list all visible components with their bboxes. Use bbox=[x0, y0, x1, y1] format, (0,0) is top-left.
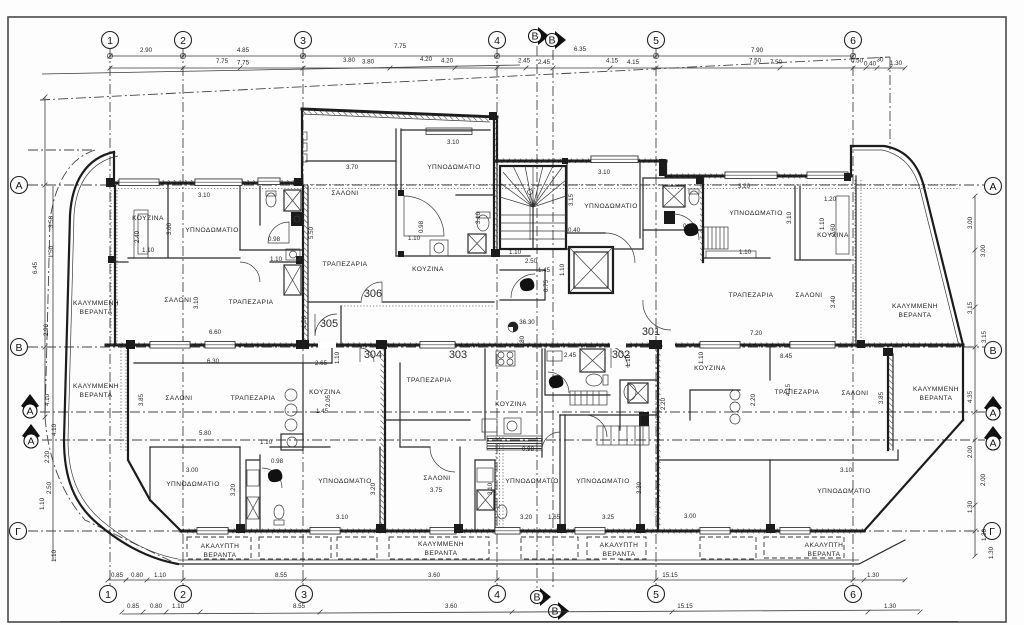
svg-text:3.10: 3.10 bbox=[336, 514, 349, 521]
staircase box bbox=[500, 166, 566, 249]
svg-text:ΚΟΥΖΙΝΑ: ΚΟΥΖΙΝΑ bbox=[132, 215, 164, 222]
apt 306 entry door bbox=[361, 282, 382, 303]
svg-text:7.75: 7.75 bbox=[237, 60, 250, 67]
dashed veranda boxes bottom bbox=[187, 537, 251, 559]
kitchen 302 counter bbox=[690, 390, 740, 420]
svg-text:2: 2 bbox=[180, 35, 186, 47]
svg-text:Γ: Γ bbox=[989, 526, 995, 538]
svg-text:ΒΕΡΑΝΤΑ: ΒΕΡΑΝΤΑ bbox=[603, 551, 636, 558]
apt 301 bedroom walls bbox=[566, 163, 568, 233]
svg-text:ΚΑΛΥΜΜΕΝΗ: ΚΑΛΥΜΜΕΝΗ bbox=[73, 300, 119, 307]
stair treads fan bbox=[500, 166, 566, 207]
small shaft west wing bbox=[284, 265, 301, 295]
terrace inner thin line bbox=[620, 559, 859, 561]
svg-text:0.50: 0.50 bbox=[851, 58, 864, 65]
svg-text:4.20: 4.20 bbox=[420, 56, 433, 63]
svg-text:1.10: 1.10 bbox=[559, 263, 566, 276]
bedroom inner north wall in bay bbox=[401, 129, 490, 131]
svg-text:3.20: 3.20 bbox=[370, 482, 377, 495]
windows on B spine wall bbox=[150, 342, 190, 349]
apt 305 entry door bbox=[308, 302, 494, 343]
svg-text:ΤΡΑΠΕΖΑΡΙΑ: ΤΡΑΠΕΖΑΡΙΑ bbox=[728, 292, 773, 299]
svg-text:3.00: 3.00 bbox=[967, 216, 974, 229]
svg-text:7.75: 7.75 bbox=[216, 58, 229, 65]
svg-text:ΥΠΝΟΔΩΜΑΤΙΟ: ΥΠΝΟΔΩΜΑΤΙΟ bbox=[729, 210, 783, 217]
kitchen 303 bbox=[484, 349, 486, 440]
elevator shaft bbox=[569, 247, 613, 293]
west veranda curved wall bbox=[64, 152, 178, 564]
center bay east wall bbox=[496, 117, 498, 162]
svg-text:2.00: 2.00 bbox=[967, 445, 974, 458]
svg-text:ΚΑΛΥΜΜΕΝΗ: ΚΑΛΥΜΜΕΝΗ bbox=[73, 383, 119, 390]
svg-text:1.10: 1.10 bbox=[819, 217, 826, 230]
top dimension line row 1 bbox=[110, 55, 853, 57]
svg-text:30: 30 bbox=[877, 57, 884, 64]
redraw windows over hatch: north walls bbox=[195, 179, 242, 186]
svg-text:3.10: 3.10 bbox=[198, 192, 211, 199]
west salon wall below A bbox=[114, 186, 116, 345]
svg-text:0.75: 0.75 bbox=[543, 279, 550, 292]
svg-text:3.10: 3.10 bbox=[786, 211, 793, 224]
svg-text:5: 5 bbox=[653, 35, 659, 47]
east wing west wall bbox=[702, 176, 704, 262]
svg-text:1.45: 1.45 bbox=[538, 267, 551, 274]
vertical column grid lines bbox=[109, 48, 111, 588]
door arcs bottom bedrooms bbox=[430, 447, 455, 472]
corridor walls center bbox=[497, 255, 530, 257]
svg-text:ΥΠΝΟΔΩΜΑΤΙΟ: ΥΠΝΟΔΩΜΑΤΙΟ bbox=[576, 478, 630, 485]
kitchen counter west wing bbox=[134, 210, 148, 258]
svg-text:3.60: 3.60 bbox=[445, 603, 458, 610]
svg-text:7.50: 7.50 bbox=[749, 58, 762, 65]
black wall piers bbox=[106, 178, 115, 187]
door arc bedroom 301 bbox=[605, 233, 635, 263]
svg-text:ΤΡΑΠΕΖΑΡΙΑ: ΤΡΑΠΕΖΑΡΙΑ bbox=[230, 395, 275, 402]
svg-text:4.15: 4.15 bbox=[785, 383, 792, 396]
svg-text:ΑΚΑΛΥΠΤΗ: ΑΚΑΛΥΠΤΗ bbox=[600, 542, 639, 549]
svg-text:3.00: 3.00 bbox=[684, 513, 697, 520]
svg-text:A: A bbox=[989, 408, 996, 420]
svg-text:0.85: 0.85 bbox=[127, 603, 140, 610]
svg-text:3.30: 3.30 bbox=[636, 481, 643, 494]
svg-text:ΚΟΥΖΙΝΑ: ΚΟΥΖΙΝΑ bbox=[694, 365, 726, 372]
bath 303 center bbox=[545, 349, 610, 395]
stair core north wall bbox=[495, 160, 666, 163]
svg-text:A: A bbox=[27, 436, 34, 448]
outer terrace edge bottom bbox=[178, 540, 905, 564]
svg-text:ΥΠΝΟΔΩΜΑΤΙΟ: ΥΠΝΟΔΩΜΑΤΙΟ bbox=[427, 164, 481, 171]
svg-text:7.75: 7.75 bbox=[394, 43, 407, 50]
svg-text:3: 3 bbox=[301, 589, 307, 601]
svg-text:4.10: 4.10 bbox=[51, 423, 58, 436]
svg-text:3.85: 3.85 bbox=[138, 393, 145, 406]
wall poche: east wing west wall bbox=[700, 176, 704, 262]
svg-text:3.50: 3.50 bbox=[48, 215, 55, 228]
bottom sheet inner line bbox=[60, 621, 958, 623]
svg-text:ΚΟΥΖΙΝΑ: ΚΟΥΖΙΝΑ bbox=[309, 389, 341, 396]
bay bath door arc bbox=[404, 196, 444, 236]
wall poche: divider 306 bbox=[303, 186, 309, 345]
svg-text:ΚΑΛΥΜΜΕΝΗ: ΚΑΛΥΜΜΕΝΗ bbox=[892, 303, 938, 310]
svg-text:4.35: 4.35 bbox=[967, 390, 974, 403]
east diagonal boundary wall upper bbox=[924, 187, 963, 345]
east veranda railing dotted bbox=[854, 180, 856, 345]
svg-text:7.50: 7.50 bbox=[770, 59, 783, 66]
svg-text:A: A bbox=[989, 181, 996, 193]
divider 303/302 bbox=[657, 347, 659, 531]
wall poche: grid B spine bbox=[106, 343, 963, 348]
east wing north wall bbox=[666, 175, 851, 178]
svg-text:1.65: 1.65 bbox=[548, 514, 561, 521]
svg-text:1.10: 1.10 bbox=[334, 351, 341, 364]
svg-text:ΣΑΛΟΝΙ: ΣΑΛΟΝΙ bbox=[795, 292, 822, 299]
svg-text:3.10: 3.10 bbox=[598, 169, 611, 176]
svg-text:3.10: 3.10 bbox=[840, 467, 853, 474]
svg-text:ΒΕΡΑΝΤΑ: ΒΕΡΑΝΤΑ bbox=[204, 552, 237, 559]
svg-text:3.00: 3.00 bbox=[186, 467, 199, 474]
corridor dotted edge y303 bbox=[341, 305, 494, 307]
svg-text:6.45: 6.45 bbox=[32, 261, 39, 274]
svg-text:ΒΕΡΑΝΤΑ: ΒΕΡΑΝΤΑ bbox=[425, 550, 458, 557]
wall poche hatch: grid A wall bbox=[114, 180, 302, 186]
svg-text:2.90: 2.90 bbox=[140, 47, 153, 54]
svg-text:B: B bbox=[989, 345, 996, 357]
svg-text:2.45: 2.45 bbox=[518, 58, 531, 65]
southwest diagonal wall bbox=[150, 500, 181, 531]
bedroom dividers bottom row bbox=[459, 447, 461, 531]
svg-text:ΣΑΛΟΝΙ: ΣΑΛΟΝΙ bbox=[165, 395, 192, 402]
svg-text:15.15: 15.15 bbox=[677, 603, 693, 610]
horizontal grid line A bbox=[28, 184, 985, 186]
svg-text:3.75: 3.75 bbox=[430, 487, 443, 494]
svg-text:303: 303 bbox=[449, 349, 467, 361]
svg-text:3.00: 3.00 bbox=[166, 222, 173, 235]
wall poche: divider 303/302 bbox=[656, 347, 661, 531]
svg-text:4: 4 bbox=[494, 589, 500, 601]
svg-text:3.10: 3.10 bbox=[475, 211, 482, 224]
svg-text:1.50: 1.50 bbox=[48, 245, 55, 258]
svg-text:1.30: 1.30 bbox=[988, 546, 995, 559]
level marker 36.30 bbox=[508, 322, 518, 332]
svg-text:ΒΕΡΑΝΤΑ: ΒΕΡΑΝΤΑ bbox=[899, 312, 932, 319]
divider 304/303 bbox=[384, 347, 386, 531]
svg-text:2.20: 2.20 bbox=[750, 393, 757, 406]
svg-text:2.60: 2.60 bbox=[830, 223, 837, 236]
east veranda west wall bbox=[850, 146, 852, 176]
svg-text:0.98: 0.98 bbox=[522, 446, 535, 453]
horizontal grid line Gamma bbox=[28, 530, 984, 532]
apt 301 bath walls bbox=[643, 178, 703, 230]
svg-text:3.70: 3.70 bbox=[346, 164, 359, 171]
slab dotted lines at grid A bbox=[118, 184, 960, 186]
site boundary top skew bbox=[40, 57, 890, 100]
svg-text:36.30: 36.30 bbox=[519, 319, 535, 326]
svg-text:5: 5 bbox=[653, 589, 659, 601]
west wing interior walls bbox=[167, 186, 169, 258]
svg-text:0.98: 0.98 bbox=[268, 236, 281, 243]
svg-text:3.20: 3.20 bbox=[230, 483, 237, 496]
horizontal grid line B bbox=[28, 346, 985, 348]
svg-text:ΚΑΛΥΜΜΕΝΗ: ΚΑΛΥΜΜΕΝΗ bbox=[913, 386, 959, 393]
svg-text:ΥΠΝΟΔΩΜΑΤΙΟ: ΥΠΝΟΔΩΜΑΤΙΟ bbox=[185, 227, 239, 234]
svg-text:2.65: 2.65 bbox=[315, 360, 328, 367]
svg-text:2.40: 2.40 bbox=[134, 230, 141, 243]
svg-text:1.10: 1.10 bbox=[270, 256, 283, 263]
row bubbles left bbox=[11, 177, 28, 194]
step wall at grid 5 area bbox=[665, 161, 667, 176]
svg-text:B: B bbox=[533, 592, 540, 604]
svg-text:1.10: 1.10 bbox=[154, 572, 167, 579]
svg-text:1.10: 1.10 bbox=[625, 354, 632, 367]
svg-text:ΥΠΝΟΔΩΜΑΤΙΟ: ΥΠΝΟΔΩΜΑΤΙΟ bbox=[166, 481, 220, 488]
wall poche: apt302 east wall bbox=[889, 354, 894, 450]
washer box above shaft 306 bbox=[286, 249, 300, 260]
svg-text:ΣΑΛΟΝΙ: ΣΑΛΟΝΙ bbox=[841, 390, 868, 397]
svg-text:0.85: 0.85 bbox=[111, 572, 124, 579]
svg-text:301: 301 bbox=[642, 326, 660, 338]
svg-text:1: 1 bbox=[105, 589, 111, 601]
apt 304 entry door bbox=[360, 348, 374, 362]
svg-text:0.80: 0.80 bbox=[150, 603, 163, 610]
building envelope: west wing north wall (grid A) bbox=[114, 182, 302, 185]
svg-text:1.10: 1.10 bbox=[172, 603, 185, 610]
svg-text:6.60: 6.60 bbox=[209, 329, 222, 336]
svg-text:8.55: 8.55 bbox=[275, 572, 288, 579]
wc core south bbox=[500, 270, 545, 300]
doors in B wall (white gaps) bbox=[318, 342, 336, 348]
bottom dimension line row 2 (scan duplicate) bbox=[122, 610, 920, 614]
svg-text:7.90: 7.90 bbox=[751, 47, 764, 54]
svg-text:ΑΚΑΛΥΠΤΗ: ΑΚΑΛΥΠΤΗ bbox=[805, 542, 844, 549]
bay bath fixtures bbox=[477, 215, 489, 231]
svg-text:7.20: 7.20 bbox=[750, 330, 763, 337]
top dimension line row 2 (scan duplicate) bbox=[42, 65, 520, 74]
svg-text:4.85: 4.85 bbox=[237, 47, 250, 54]
svg-text:6.35: 6.35 bbox=[574, 46, 587, 53]
svg-text:1.10: 1.10 bbox=[408, 235, 421, 242]
horizontal divider 304 bbox=[150, 446, 330, 448]
bed hatch 302 bbox=[597, 426, 649, 445]
wall poche: divider 304/303 bbox=[381, 347, 386, 531]
apt 301 bath fixtures bbox=[663, 186, 685, 207]
svg-text:6: 6 bbox=[850, 35, 856, 47]
bottom dimension line row 1 bbox=[108, 579, 905, 581]
svg-text:1.20: 1.20 bbox=[824, 196, 837, 203]
redraw windows over hatch: south wall bbox=[197, 528, 228, 535]
svg-text:2.96: 2.96 bbox=[43, 323, 50, 336]
svg-text:3.40: 3.40 bbox=[830, 295, 837, 308]
wall poche: bay east wall bbox=[494, 117, 498, 256]
south wall of bedrooms (grid Gamma) bbox=[181, 530, 864, 533]
svg-text:3.15: 3.15 bbox=[568, 193, 575, 206]
svg-text:1.10: 1.10 bbox=[51, 549, 58, 562]
svg-text:ΚΟΥΖΙΝΑ: ΚΟΥΖΙΝΑ bbox=[495, 401, 527, 408]
svg-text:2.45: 2.45 bbox=[538, 59, 551, 66]
apt 302 entry door bbox=[611, 346, 628, 368]
svg-text:4.15: 4.15 bbox=[627, 59, 640, 66]
svg-text:3.25: 3.25 bbox=[602, 514, 615, 521]
svg-text:ΚΟΥΖΙΝΑ: ΚΟΥΖΙΝΑ bbox=[412, 266, 444, 273]
svg-text:3.10: 3.10 bbox=[487, 482, 494, 495]
left dimension column bbox=[44, 97, 46, 417]
svg-text:304: 304 bbox=[364, 349, 382, 361]
svg-text:3.15: 3.15 bbox=[967, 301, 974, 314]
kitchen 301 counter bbox=[836, 196, 849, 254]
svg-text:2.00: 2.00 bbox=[980, 473, 987, 486]
svg-text:4: 4 bbox=[494, 35, 500, 47]
bottom apartments: apt top wall 304 bbox=[134, 362, 332, 364]
svg-text:3: 3 bbox=[300, 35, 306, 47]
svg-text:0.40: 0.40 bbox=[864, 61, 877, 68]
wall poche: stair north wall bbox=[495, 159, 666, 164]
svg-text:B: B bbox=[548, 35, 555, 47]
svg-text:1.10: 1.10 bbox=[39, 497, 46, 510]
apt 304 kitchen wall bbox=[302, 363, 304, 440]
row bubbles right bbox=[985, 178, 1002, 195]
svg-text:0.98: 0.98 bbox=[418, 220, 425, 233]
wall poche: south wall bbox=[181, 529, 864, 534]
svg-text:1.30: 1.30 bbox=[890, 60, 903, 67]
svg-text:5.80: 5.80 bbox=[199, 430, 212, 437]
apt 302 bath bbox=[620, 380, 658, 430]
apt 302 east wall bbox=[887, 354, 889, 450]
svg-text:2.50: 2.50 bbox=[46, 481, 53, 494]
svg-text:306: 306 bbox=[364, 288, 382, 300]
svg-text:1.10: 1.10 bbox=[142, 247, 155, 254]
svg-text:4.20: 4.20 bbox=[441, 58, 454, 65]
redraw windows over hatch: B wall bbox=[150, 342, 190, 349]
svg-text:ΒΕΡΑΝΤΑ: ΒΕΡΑΝΤΑ bbox=[80, 392, 113, 399]
stove circles 304 bbox=[285, 389, 297, 401]
svg-text:ΤΡΑΠΕΖΑΡΙΑ: ΤΡΑΠΕΖΑΡΙΑ bbox=[322, 261, 367, 268]
svg-text:3.00: 3.00 bbox=[980, 244, 987, 257]
svg-text:1.10: 1.10 bbox=[739, 249, 752, 256]
east wing interior walls bbox=[794, 186, 796, 260]
svg-text:ΣΑΛΟΝΙ: ΣΑΛΟΝΙ bbox=[331, 190, 358, 197]
svg-text:6: 6 bbox=[850, 589, 856, 601]
svg-text:1.30: 1.30 bbox=[967, 500, 974, 513]
section mark B bottom bbox=[540, 588, 551, 606]
center bay interior bbox=[306, 160, 396, 162]
windows on north walls bbox=[195, 179, 242, 186]
svg-text:ΣΑΛΟΝΙ: ΣΑΛΟΝΙ bbox=[164, 297, 191, 304]
svg-text:3.20: 3.20 bbox=[520, 514, 533, 521]
west wall of apt 304 bbox=[128, 347, 150, 500]
svg-text:3.20: 3.20 bbox=[738, 183, 751, 190]
svg-text:4.10: 4.10 bbox=[44, 393, 51, 406]
svg-text:1.30: 1.30 bbox=[981, 528, 988, 541]
svg-text:0.40: 0.40 bbox=[568, 227, 581, 234]
svg-text:3.10: 3.10 bbox=[447, 139, 460, 146]
svg-text:3.80: 3.80 bbox=[343, 57, 356, 64]
svg-text:0.98: 0.98 bbox=[271, 458, 284, 465]
svg-text:ΥΠΝΟΔΩΜΑΤΙΟ: ΥΠΝΟΔΩΜΑΤΙΟ bbox=[318, 478, 372, 485]
east wall below B bbox=[962, 345, 964, 420]
svg-text:1.30: 1.30 bbox=[867, 572, 880, 579]
svg-text:ΚΑΛΥΜΜΕΝΗ: ΚΑΛΥΜΜΕΝΗ bbox=[418, 541, 464, 548]
svg-text:1.45: 1.45 bbox=[316, 408, 329, 415]
west wing bath fixtures bbox=[284, 190, 301, 211]
apt 306 divider wall (hatched) bbox=[302, 186, 304, 345]
svg-text:Γ: Γ bbox=[15, 526, 21, 538]
section marks A-A left bbox=[21, 394, 39, 412]
southeast diagonal wall bbox=[864, 420, 963, 531]
svg-text:1.10: 1.10 bbox=[509, 249, 522, 256]
west wing bedroom door arc bbox=[240, 262, 260, 282]
svg-text:305: 305 bbox=[320, 318, 338, 330]
svg-text:ΤΡΑΠΕΖΑΡΙΑ: ΤΡΑΠΕΖΑΡΙΑ bbox=[406, 377, 451, 384]
svg-text:2: 2 bbox=[180, 589, 186, 601]
svg-text:1.30: 1.30 bbox=[884, 603, 897, 610]
grid bubbles top bbox=[102, 32, 119, 49]
svg-text:8.45: 8.45 bbox=[780, 353, 793, 360]
svg-text:6.30: 6.30 bbox=[207, 358, 220, 365]
svg-text:ΑΚΑΛΥΠΤΗ: ΑΚΑΛΥΠΤΗ bbox=[201, 543, 240, 550]
svg-text:5.50: 5.50 bbox=[308, 226, 315, 239]
west wing bath door arc bbox=[268, 222, 289, 243]
section mark B top bbox=[538, 27, 549, 45]
svg-text:A: A bbox=[989, 438, 996, 450]
svg-text:ΒΕΡΑΝΤΑ: ΒΕΡΑΝΤΑ bbox=[80, 309, 113, 316]
svg-text:A: A bbox=[26, 406, 33, 418]
bay west wall vent boxes bbox=[302, 132, 307, 140]
svg-text:3.60: 3.60 bbox=[428, 572, 441, 579]
center bay west wall bbox=[301, 109, 303, 183]
svg-text:ΤΡΑΠΕΖΑΡΙΑ: ΤΡΑΠΕΖΑΡΙΑ bbox=[774, 389, 819, 396]
veranda inner edge right top bbox=[855, 176, 857, 345]
windows on south wall bbox=[197, 528, 228, 535]
svg-text:3.10: 3.10 bbox=[193, 296, 200, 309]
svg-text:B: B bbox=[531, 31, 538, 43]
svg-text:3.85: 3.85 bbox=[878, 391, 885, 404]
bay apartment east wall bbox=[493, 117, 495, 256]
svg-text:ΥΠΝΟΔΩΜΑΤΙΟ: ΥΠΝΟΔΩΜΑΤΙΟ bbox=[505, 478, 559, 485]
bay bath walls bbox=[396, 255, 494, 257]
section marks A-A right bbox=[984, 396, 1002, 414]
svg-text:1: 1 bbox=[107, 35, 113, 47]
svg-text:ΒΕΡΑΝΤΑ: ΒΕΡΑΝΤΑ bbox=[808, 551, 841, 558]
svg-text:3.15: 3.15 bbox=[981, 330, 988, 343]
svg-text:ΒΕΡΑΝΤΑ: ΒΕΡΑΝΤΑ bbox=[920, 395, 953, 402]
svg-text:0.80: 0.80 bbox=[131, 572, 144, 579]
bed hatch 303 bbox=[570, 391, 607, 405]
wall poche: bay top bbox=[302, 109, 497, 122]
veranda railing dotted left bbox=[110, 190, 112, 345]
svg-text:ΤΡΑΠΕΖΑΡΙΑ: ΤΡΑΠΕΖΑΡΙΑ bbox=[228, 299, 273, 306]
svg-text:A: A bbox=[15, 180, 22, 192]
center bay top wall (slanted) bbox=[302, 109, 497, 117]
section line A-A horizontal bbox=[40, 411, 985, 413]
svg-text:2.20: 2.20 bbox=[44, 450, 51, 463]
svg-text:8.55: 8.55 bbox=[293, 603, 306, 610]
svg-text:0.98: 0.98 bbox=[683, 223, 696, 230]
east veranda top + curve corner bbox=[851, 146, 924, 187]
bed hatch apt 301 bbox=[704, 227, 728, 249]
apt 301 entry door bbox=[643, 300, 671, 330]
svg-text:1.10: 1.10 bbox=[260, 439, 273, 446]
grid bubbles bottom bbox=[100, 586, 117, 603]
svg-text:2.05: 2.05 bbox=[325, 394, 332, 407]
svg-text:B: B bbox=[15, 342, 22, 354]
washer box 304 bbox=[281, 434, 303, 450]
svg-text:15.15: 15.15 bbox=[662, 572, 678, 579]
apt 302 interior bbox=[658, 459, 770, 461]
bath 304 bbox=[246, 455, 260, 531]
svg-text:2.45: 2.45 bbox=[564, 352, 577, 359]
svg-text:2.20: 2.20 bbox=[660, 397, 667, 410]
svg-text:3.80: 3.80 bbox=[362, 59, 375, 66]
apt 303 walls bbox=[399, 363, 401, 447]
